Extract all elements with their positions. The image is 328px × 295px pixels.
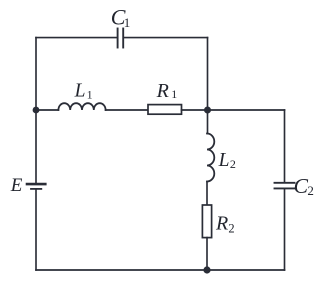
wire node A to right rail (208, 109, 285, 111)
capacitor C2 (275, 183, 295, 189)
svg-text:2: 2 (230, 157, 236, 171)
inductor L1 (58, 103, 105, 110)
svg-text:L: L (74, 81, 86, 102)
svg-text:1: 1 (124, 15, 131, 30)
wire left rail mid (node B down to battery) (35, 110, 37, 183)
svg-text:1: 1 (171, 87, 177, 101)
wire left rail upper (top-left corner down to node B) (35, 38, 37, 110)
wire top-right segment (C1 right plate to top-right corner) (124, 37, 207, 39)
wire right rail upper (corner down to C2) (284, 110, 286, 182)
svg-text:C: C (294, 174, 309, 198)
wire top-left segment (top-left corner to C1 left plate) (36, 37, 117, 39)
wire bottom rail (36, 269, 285, 271)
wire right rail lower (C2 to bottom-right corner) (284, 189, 286, 270)
svg-text:1: 1 (87, 88, 93, 102)
label L2 (218, 150, 236, 171)
wire L1 to R1 (106, 109, 148, 111)
label R2 (215, 213, 235, 236)
label R1 (156, 80, 178, 102)
node C (bottom junction dot) (203, 266, 210, 273)
wire R1 to node A (182, 109, 208, 111)
svg-text:R: R (215, 213, 228, 235)
wire node A to L2 (207, 110, 209, 134)
svg-text:2: 2 (228, 222, 234, 236)
svg-text:R: R (156, 80, 169, 102)
resistor R2 (202, 205, 211, 238)
wire node B to L1 (36, 109, 58, 111)
label C1 (111, 5, 131, 30)
wire left rail lower (battery to bottom-left corner) (35, 190, 37, 270)
battery E (27, 184, 45, 189)
svg-text:L: L (218, 150, 230, 171)
label L1 (74, 81, 93, 102)
wire R2 to node C (206, 238, 208, 270)
node B (left junction dot) (33, 107, 40, 114)
resistor R1 (148, 105, 182, 115)
svg-text:E: E (10, 175, 23, 196)
label E (10, 175, 23, 196)
svg-text:2: 2 (307, 183, 314, 198)
node A (middle junction dot) (204, 107, 211, 114)
label C2 (294, 174, 314, 198)
wire right drop (top-right corner down to node A) (207, 38, 209, 110)
wire L2 to R2 (206, 182, 208, 206)
capacitor C1 (118, 29, 124, 48)
inductor L2 (207, 134, 214, 182)
